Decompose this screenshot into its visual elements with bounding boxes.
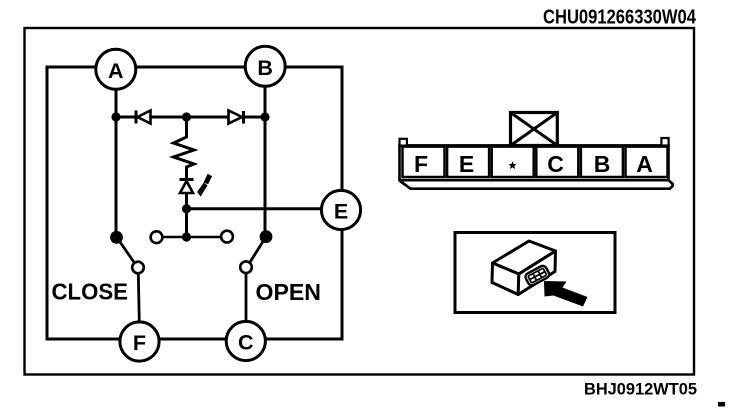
terminal F bbox=[120, 322, 159, 361]
svg-text:E: E bbox=[459, 151, 474, 177]
relay module right face bbox=[518, 251, 555, 295]
svg-text:E: E bbox=[334, 200, 348, 224]
connector cavity A bbox=[626, 147, 668, 177]
connector left top tab bbox=[400, 139, 407, 146]
relay module connector socket bbox=[524, 264, 550, 286]
LED flash arrow symbol bbox=[197, 174, 212, 197]
diode D2 (triangle pointing right, cathode bar right) bbox=[229, 111, 244, 124]
node junction dot at LED/E wire bbox=[182, 204, 191, 213]
connector keying X-box bbox=[511, 113, 558, 146]
wire: vertical from terminal B down to switch bbox=[264, 86, 267, 236]
svg-text:A: A bbox=[108, 59, 124, 83]
node junction dot center of diode row bbox=[182, 112, 191, 121]
switch SW1 CLOSE (common dot and lever) bbox=[110, 231, 144, 322]
stray mark bottom right bbox=[718, 402, 725, 407]
wire: diode row horizontal bbox=[116, 116, 265, 119]
svg-text:F: F bbox=[133, 331, 146, 355]
relay module top face bbox=[493, 241, 556, 274]
node junction dot right of diode row bbox=[260, 112, 269, 121]
svg-text:CLOSE: CLOSE bbox=[52, 279, 129, 305]
svg-text:CHU091266330W04: CHU091266330W04 bbox=[543, 6, 696, 29]
outer border frame bbox=[25, 28, 695, 375]
contact: open circle left on bar bbox=[151, 231, 163, 243]
wire: vertical from terminal A down to switch bbox=[115, 87, 118, 237]
terminal A bbox=[96, 49, 136, 89]
node junction dot left of diode row bbox=[111, 112, 120, 121]
arrow pointing to relay connector bbox=[544, 281, 588, 307]
terminal E bbox=[321, 190, 360, 229]
connector body outline bbox=[400, 145, 669, 180]
svg-text:A: A bbox=[636, 151, 653, 177]
connector bottom skirt bbox=[400, 181, 673, 189]
LED D3 (cathode bar on top, triangle pointing up) bbox=[180, 180, 194, 238]
resistor R1 (vertical zigzag) bbox=[174, 117, 195, 179]
svg-text:C: C bbox=[547, 151, 564, 177]
wire: circuit loop (left, top, right, bottom) bbox=[47, 67, 342, 339]
diode D1 (cathode bar left, triangle pointing left) bbox=[136, 111, 151, 124]
relay module left face bbox=[492, 263, 519, 295]
svg-text:C: C bbox=[238, 331, 254, 355]
terminal C bbox=[226, 321, 265, 360]
connector cavity E bbox=[447, 147, 489, 177]
wire: contact bar horizontal bbox=[160, 236, 223, 239]
wire: horizontal to terminal E bbox=[187, 207, 324, 210]
switch SW2 OPEN (common dot and lever) bbox=[240, 230, 272, 322]
svg-text:B: B bbox=[594, 151, 611, 177]
contact: open circle right on bar bbox=[221, 231, 233, 243]
svg-text:B: B bbox=[257, 56, 273, 80]
terminal B bbox=[245, 46, 285, 86]
svg-text:F: F bbox=[414, 151, 428, 177]
connector cavity F bbox=[403, 147, 445, 177]
node junction dot at contact bar bbox=[182, 232, 191, 241]
connector cavity star bbox=[492, 147, 534, 177]
svg-text:BHJ0912WT05: BHJ0912WT05 bbox=[584, 381, 697, 399]
connector cavity B bbox=[581, 147, 623, 177]
connector right top tab bbox=[661, 138, 668, 146]
svg-text:OPEN: OPEN bbox=[256, 279, 322, 305]
relay location box bbox=[455, 233, 615, 313]
connector cavity C bbox=[536, 147, 578, 177]
